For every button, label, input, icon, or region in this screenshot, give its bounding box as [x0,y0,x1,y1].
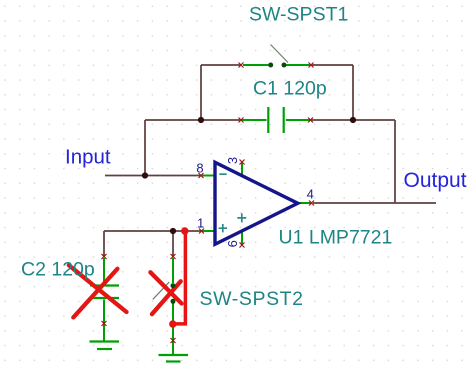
svg-text:SW-SPST2: SW-SPST2 [200,288,304,310]
svg-text:8: 8 [196,160,203,175]
svg-text:U1 LMP7721: U1 LMP7721 [279,226,393,248]
svg-text:6: 6 [225,240,240,247]
svg-text:1: 1 [197,215,204,230]
svg-text:4: 4 [307,187,314,202]
svg-text:Input: Input [65,146,111,169]
svg-text:SW-SPST1: SW-SPST1 [249,4,348,26]
svg-text:3: 3 [225,157,240,164]
svg-text:Output: Output [404,169,467,192]
svg-text:C1 120p: C1 120p [253,77,327,99]
svg-text:C2 120p: C2 120p [21,258,95,280]
